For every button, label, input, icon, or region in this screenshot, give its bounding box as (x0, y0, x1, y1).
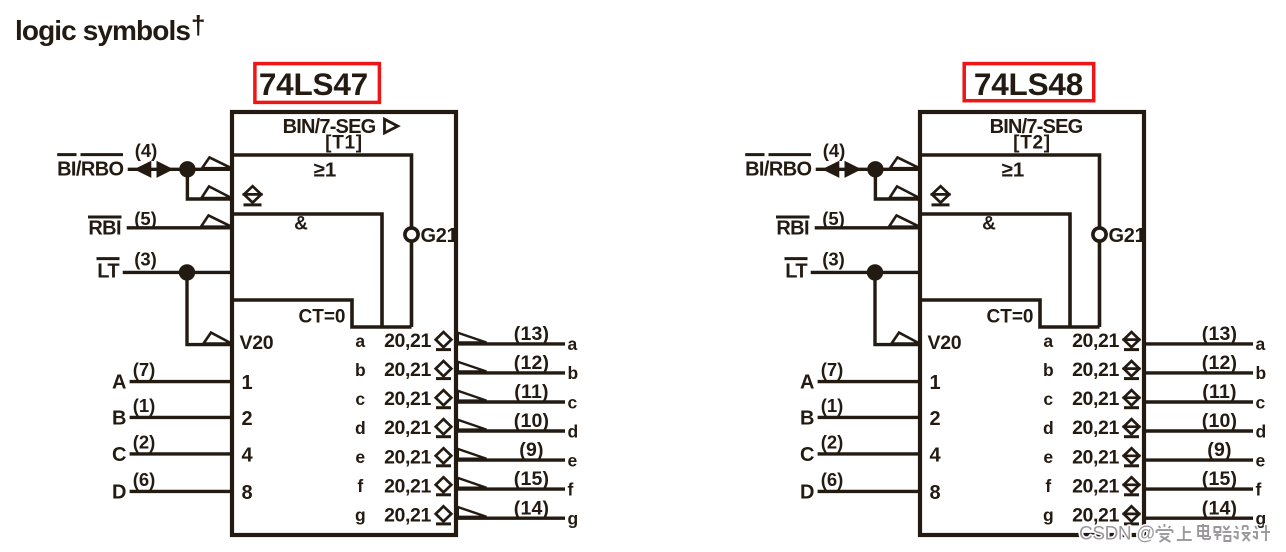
svg-text:b: b (568, 363, 579, 383)
U2 polarity indicator BI input (890, 157, 920, 168)
U1 input label B (112, 407, 126, 429)
U1 wire LT (123, 271, 232, 274)
svg-text:c: c (568, 392, 578, 412)
svg-text:G21: G21 (1109, 225, 1146, 247)
U1 output terminal label b (568, 363, 579, 383)
svg-text:a: a (1043, 331, 1053, 351)
svg-text:20,21: 20,21 (1072, 388, 1119, 410)
U2 weight label 8 (930, 482, 941, 504)
U1 weight label 8 (242, 482, 253, 504)
U2 input label LT with overline (785, 259, 808, 283)
U1 output cell label a (355, 331, 365, 351)
U2 wire BI/RBO (816, 168, 920, 171)
U1 pin number (12) (514, 352, 549, 374)
svg-text:(4): (4) (823, 140, 846, 161)
U2 output function label 20,21 (1072, 417, 1119, 439)
U1 output function label 20,21 (384, 475, 431, 497)
svg-text:(1): (1) (133, 395, 156, 416)
U2 wire RBO branch (875, 169, 920, 199)
U2 output terminal label g (1256, 509, 1267, 529)
U1 input label LT with overline (97, 259, 120, 283)
U2 header tag [T2] (1013, 133, 1051, 154)
svg-text:CT=0: CT=0 (299, 307, 346, 328)
U2 pin number (12) (1202, 352, 1237, 374)
svg-text:D: D (800, 481, 814, 503)
svg-text:8: 8 (242, 482, 253, 504)
U2 output function label 20,21 (1072, 475, 1119, 497)
U1 BI/RBO bidirectional arrow right (157, 162, 173, 178)
U2 AND element label & (982, 214, 996, 235)
U2 wire output c (1144, 400, 1253, 403)
U2 wire output d (1144, 429, 1253, 432)
U1 pin number (6) (133, 469, 156, 490)
U1 wire RBO branch (187, 169, 232, 199)
U2 output function label 20,21 (1072, 504, 1119, 526)
svg-text:BI/RBO: BI/RBO (745, 159, 811, 181)
svg-text:20,21: 20,21 (384, 359, 431, 381)
watermark CSDN (1079, 524, 1270, 545)
U1 output symbol diamond g (436, 506, 452, 524)
svg-text:a: a (355, 331, 365, 351)
U1 counter CT=0 outline step (232, 300, 412, 327)
U2 wire RBI (815, 226, 920, 229)
svg-text:e: e (568, 450, 578, 470)
U2 output terminal label e (1256, 450, 1266, 470)
svg-text:c: c (355, 389, 365, 409)
svg-text:(13): (13) (514, 323, 549, 345)
svg-text:(3): (3) (134, 249, 157, 270)
U1 junction dot BI/RBO (179, 161, 195, 177)
svg-text:(5): (5) (134, 208, 157, 229)
svg-text:74LS48: 74LS48 (974, 66, 1083, 102)
svg-text:(11): (11) (1202, 381, 1236, 403)
U2 output cell label f (1045, 476, 1051, 496)
U1 wire input D (130, 490, 232, 493)
U2 output symbol diamond f (1123, 477, 1141, 495)
U2 output terminal label b (1256, 363, 1267, 383)
svg-text:a: a (568, 334, 578, 354)
svg-text:20,21: 20,21 (384, 330, 431, 352)
U1 output function label 20,21 (384, 417, 431, 439)
U2 pin number (15) (1202, 468, 1237, 490)
U1 output symbol diamond e (436, 448, 452, 466)
IC U2 74LS48 title red box (964, 64, 1093, 102)
svg-text:e: e (1256, 450, 1266, 470)
svg-text:20,21: 20,21 (1072, 475, 1119, 497)
U2 node G21 label (1109, 225, 1146, 247)
U2 pin number (5) (822, 208, 845, 229)
U2 input label D (800, 481, 814, 503)
U2 wire LT branch to V20 (875, 272, 920, 344)
U1 output symbol diamond b (436, 361, 452, 379)
U2 output function label 20,21 (1072, 359, 1119, 381)
svg-text:d: d (1043, 418, 1054, 438)
U1 output symbol diamond f (436, 477, 452, 495)
svg-text:g: g (1043, 505, 1054, 525)
U1 pin number (9) (519, 439, 543, 461)
U2 output terminal label d (1256, 421, 1267, 441)
svg-text:4: 4 (242, 444, 254, 466)
U1 output symbol diamond c (436, 390, 452, 408)
svg-text:(9): (9) (519, 439, 543, 461)
U2 pin number (7) (821, 359, 844, 380)
svg-text:(12): (12) (1202, 352, 1237, 374)
U2 RBO output symbol diamond (931, 186, 951, 205)
U2 output function label 20,21 (1072, 446, 1119, 468)
U1 output cell label b (355, 360, 366, 380)
svg-text:(11): (11) (514, 381, 548, 403)
svg-text:d: d (1256, 421, 1267, 441)
U1 polarity indicator RBI input (201, 215, 232, 226)
svg-text:A: A (800, 372, 814, 394)
U2 pin number (1) (821, 395, 844, 416)
U2 BI/RBO bidirectional arrow right (845, 162, 861, 178)
svg-text:†: † (191, 10, 205, 40)
svg-text:20,21: 20,21 (1072, 417, 1119, 439)
U2 output terminal label a (1256, 334, 1266, 354)
svg-text:(6): (6) (821, 469, 844, 490)
U1 polarity indicator output a (458, 333, 487, 343)
U1 weight label 4 (242, 444, 254, 466)
svg-text:20,21: 20,21 (1072, 446, 1119, 468)
U2 pin number (14) (1202, 497, 1237, 519)
U2 weight label 4 (930, 444, 942, 466)
U1 pin number (4) (135, 140, 158, 161)
U2 wire output f (1144, 487, 1253, 490)
U2 wire input A (818, 380, 920, 383)
svg-text:20,21: 20,21 (384, 388, 431, 410)
U2 input label BI/RBO with overlines (745, 155, 811, 181)
U1 pin number (2) (133, 431, 156, 452)
U1 input label D (112, 481, 126, 503)
U1 wire output e (456, 458, 565, 461)
U2 counter CT=0 outline step (920, 300, 1100, 327)
U1 wire output g (456, 517, 565, 520)
U2 weight label 1 (930, 372, 941, 394)
svg-text:D: D (112, 481, 126, 503)
U2 output cell label d (1043, 418, 1054, 438)
svg-text:f: f (1045, 476, 1051, 496)
U2 output cell label e (1043, 447, 1053, 467)
svg-text:(13): (13) (1202, 323, 1237, 345)
U1 output terminal label c (568, 392, 578, 412)
U1 polarity indicator output c (458, 391, 487, 401)
U1 output cell label g (355, 505, 366, 525)
U1 output symbol diamond a (436, 332, 452, 350)
svg-text:20,21: 20,21 (1072, 330, 1119, 352)
svg-text:V20: V20 (240, 332, 274, 354)
svg-text:2: 2 (242, 408, 253, 430)
U1 output terminal label a (568, 334, 578, 354)
U1 output terminal label d (568, 421, 579, 441)
svg-text:1: 1 (930, 372, 941, 394)
U1 junction dot LT (179, 264, 195, 280)
U2 OR element >=1 outline (920, 155, 1100, 327)
U1 output function label 20,21 (384, 330, 431, 352)
svg-text:V20: V20 (928, 332, 962, 354)
svg-text:(2): (2) (821, 431, 844, 452)
svg-text:(2): (2) (133, 431, 156, 452)
U1 output function label 20,21 (384, 446, 431, 468)
U2 output terminal label c (1256, 392, 1266, 412)
svg-text:d: d (355, 418, 366, 438)
U1 label CT=0 (299, 307, 346, 328)
svg-text:LT: LT (785, 261, 807, 283)
U2 node G21 circle (1093, 228, 1106, 241)
svg-text:e: e (1043, 447, 1053, 467)
svg-text:b: b (355, 360, 366, 380)
U2 input label RBI with overline (776, 217, 810, 239)
U2 label CT=0 (987, 307, 1034, 328)
U1 polarity indicator RBO output (202, 186, 232, 198)
U1 OR element >=1 outline (232, 155, 412, 327)
U1 RBO output symbol diamond (243, 186, 263, 205)
U2 wire LT (811, 271, 920, 274)
U2 pin number (13) (1202, 323, 1237, 345)
U1 wire BI/RBO (128, 168, 232, 171)
svg-text:f: f (568, 479, 574, 499)
svg-text:logic symbols: logic symbols (15, 15, 190, 46)
U1 polarity indicator BI input (202, 157, 232, 168)
svg-text:[T2]: [T2] (1013, 133, 1051, 154)
U2 pin number (11) (1202, 381, 1236, 403)
U2 pin number (3) (822, 249, 845, 270)
U2 BI/RBO bidirectional arrow left (823, 162, 839, 178)
U1 output cell label d (355, 418, 366, 438)
U2 wire input D (818, 490, 920, 493)
IC U1 74LS47 title red box (255, 64, 380, 103)
U2 polarity indicator V20 input (892, 333, 920, 344)
U1 AND element label & (294, 214, 308, 235)
svg-text:20,21: 20,21 (1072, 359, 1119, 381)
svg-text:20,21: 20,21 (384, 446, 431, 468)
svg-text:A: A (112, 372, 126, 394)
U1 output cell label f (357, 476, 363, 496)
U1 pin number (3) (134, 249, 157, 270)
U2 output cell label c (1043, 389, 1053, 409)
U2 wire output b (1144, 371, 1253, 374)
svg-text:(9): (9) (1207, 439, 1231, 461)
U1 polarity indicator output b (458, 362, 487, 372)
svg-text:g: g (568, 509, 579, 529)
U1 output symbol diamond d (436, 419, 452, 437)
U2 label V20 (928, 332, 962, 354)
svg-text:20,21: 20,21 (384, 475, 431, 497)
svg-text:&: & (294, 214, 308, 235)
U1 pin number (5) (134, 208, 157, 229)
U1 wire output b (456, 371, 565, 374)
svg-text:B: B (800, 407, 814, 429)
svg-text:4: 4 (930, 444, 942, 466)
U1 output function label 20,21 (384, 359, 431, 381)
svg-text:(12): (12) (514, 352, 549, 374)
U1 wire output a (456, 342, 565, 345)
U1 wire RBI (127, 226, 232, 229)
U2 weight label 2 (930, 408, 941, 430)
svg-text:(14): (14) (1202, 497, 1237, 519)
svg-text:CT=0: CT=0 (987, 307, 1034, 328)
U1 output terminal label f (568, 479, 574, 499)
U2 output symbol diamond b (1123, 361, 1141, 379)
U2 output symbol diamond a (1123, 332, 1141, 350)
U1 wire LT branch to V20 (187, 272, 232, 344)
U1 output function label 20,21 (384, 388, 431, 410)
U1 input label A (112, 372, 126, 394)
U1 node G21 circle (405, 228, 418, 241)
svg-text:c: c (1256, 392, 1266, 412)
U1 pin number (10) (514, 410, 549, 432)
U2 output cell label b (1043, 360, 1054, 380)
svg-text:(10): (10) (514, 410, 549, 432)
U2 pin number (9) (1207, 439, 1231, 461)
U1 output function label 20,21 (384, 504, 431, 526)
U1 output cell label c (355, 389, 365, 409)
U2 wire input C (818, 452, 920, 455)
svg-text:(10): (10) (1202, 410, 1237, 432)
svg-text:LT: LT (97, 261, 119, 283)
svg-text:(14): (14) (514, 497, 549, 519)
U2 input label B (800, 407, 814, 429)
U2 output function label 20,21 (1072, 330, 1119, 352)
U2 OR element label >=1 (1002, 159, 1025, 182)
svg-text:B: B (112, 407, 126, 429)
U2 header label BIN/7-SEG (990, 116, 1083, 138)
U2 polarity indicator RBO output (890, 186, 920, 198)
U1 input label C (112, 444, 126, 466)
U2 output symbol diamond c (1123, 390, 1141, 408)
svg-text:8: 8 (930, 482, 941, 504)
U1 pin number (11) (514, 381, 548, 403)
U2 polarity indicator RBI input (889, 215, 920, 226)
U1 wire output c (456, 400, 565, 403)
U1 pin number (15) (514, 468, 549, 490)
U2 output terminal label f (1256, 479, 1262, 499)
svg-text:(15): (15) (514, 468, 549, 490)
svg-text:(3): (3) (822, 249, 845, 270)
U1 pin number (14) (514, 497, 549, 519)
U2 output function label 20,21 (1072, 388, 1119, 410)
U1 pin number (7) (133, 359, 156, 380)
U1 polarity indicator output g (458, 507, 487, 517)
U1 wire input C (130, 452, 232, 455)
svg-text:(5): (5) (822, 208, 845, 229)
U1 weight label 1 (242, 372, 253, 394)
U2 wire output g (1144, 517, 1253, 520)
U1 node G21 label (421, 225, 458, 247)
U2 pin number (2) (821, 431, 844, 452)
svg-text:(7): (7) (821, 359, 844, 380)
U1 header tag [T1] (325, 133, 363, 154)
U1 input label BI/RBO with overlines (57, 155, 123, 181)
svg-text:&: & (982, 214, 996, 235)
U1 input label RBI with overline (88, 217, 122, 239)
IC U1 74LS47 outline box (232, 112, 456, 535)
svg-text:20,21: 20,21 (384, 504, 431, 526)
svg-text:g: g (355, 505, 366, 525)
svg-text:[T1]: [T1] (325, 133, 363, 154)
U1 wire output f (456, 487, 565, 490)
svg-text:20,21: 20,21 (384, 417, 431, 439)
U2 wire output a (1144, 342, 1253, 345)
U1 wire input B (130, 416, 232, 419)
svg-text:b: b (1256, 363, 1267, 383)
svg-text:b: b (1043, 360, 1054, 380)
svg-text:BI/RBO: BI/RBO (57, 159, 123, 181)
U1 polarity indicator output e (458, 449, 487, 459)
U2 pin number (6) (821, 469, 844, 490)
U1 polarity indicator output f (458, 478, 487, 488)
U1 label V20 (240, 332, 274, 354)
svg-text:(6): (6) (133, 469, 156, 490)
U2 output symbol diamond d (1123, 419, 1141, 437)
svg-text:RBI: RBI (88, 217, 121, 239)
U1 polarity indicator output d (458, 420, 487, 430)
svg-text:f: f (1256, 479, 1262, 499)
svg-text:≥1: ≥1 (1002, 159, 1025, 182)
svg-text:C: C (112, 444, 126, 466)
U2 output symbol diamond e (1123, 448, 1141, 466)
IC U2 74LS48 outline box (920, 112, 1144, 535)
U2 junction dot LT (867, 264, 883, 280)
svg-text:(7): (7) (133, 359, 156, 380)
page heading logic symbols with dagger (15, 10, 205, 46)
U1 AND element outline (232, 214, 382, 327)
svg-text:C: C (800, 444, 814, 466)
U2 wire output e (1144, 458, 1253, 461)
U1 output terminal label e (568, 450, 578, 470)
U2 output symbol diamond g (1123, 506, 1141, 524)
U2 wire input B (818, 416, 920, 419)
U1 BI/RBO bidirectional arrow left (135, 162, 151, 178)
U1 pin number (13) (514, 323, 549, 345)
svg-text:(1): (1) (821, 395, 844, 416)
svg-text:c: c (1043, 389, 1053, 409)
U2 junction dot BI/RBO (867, 161, 883, 177)
U1 weight label 2 (242, 408, 253, 430)
svg-text:74LS47: 74LS47 (259, 66, 368, 102)
svg-text:G21: G21 (421, 225, 458, 247)
U1 OR element label >=1 (314, 159, 337, 182)
svg-text:f: f (357, 476, 363, 496)
svg-text:a: a (1256, 334, 1266, 354)
U1 output terminal label g (568, 509, 579, 529)
svg-text:CSDN @: CSDN @ (1079, 524, 1155, 545)
U1 polarity indicator V20 input (204, 333, 232, 344)
svg-text:d: d (568, 421, 579, 441)
svg-text:≥1: ≥1 (314, 159, 337, 182)
svg-text:1: 1 (242, 372, 253, 394)
U2 input label C (800, 444, 814, 466)
svg-text:2: 2 (930, 408, 941, 430)
U1 wire output d (456, 429, 565, 432)
svg-text:(15): (15) (1202, 468, 1237, 490)
U1 pin number (1) (133, 395, 156, 416)
U1 wire input A (130, 380, 232, 383)
U2 output cell label g (1043, 505, 1054, 525)
U1 header label BIN/7-SEG (283, 116, 376, 138)
U2 input label A (800, 372, 814, 394)
U2 pin number (4) (823, 140, 846, 161)
svg-text:e: e (355, 447, 365, 467)
U1 output cell label e (355, 447, 365, 467)
svg-text:RBI: RBI (776, 217, 809, 239)
svg-text:(4): (4) (135, 140, 158, 161)
U2 AND element outline (920, 214, 1070, 327)
U2 pin number (10) (1202, 410, 1237, 432)
U1 header open-collector triangle (385, 119, 398, 133)
U2 output cell label a (1043, 331, 1053, 351)
